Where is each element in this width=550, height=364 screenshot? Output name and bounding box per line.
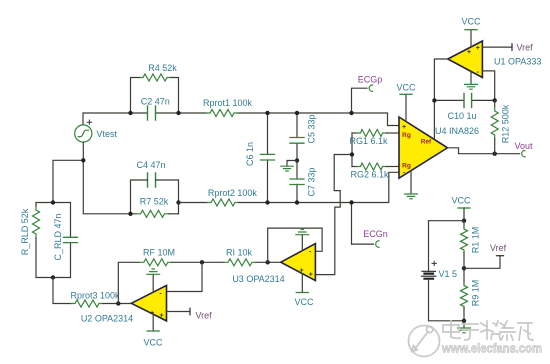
- resistor R12 500k: [494, 100, 496, 107]
- junction: divider bottom: [462, 319, 466, 323]
- svg-text:Vref: Vref: [490, 243, 507, 253]
- svg-text:U2 OPA2314: U2 OPA2314: [81, 314, 133, 324]
- wire: Vref tap terminal: [464, 256, 500, 269]
- junction: top rail at ECGp: [349, 111, 353, 115]
- resistor R9 1M: [463, 268, 465, 284]
- ground above U3 (flipped): [301, 235, 303, 251]
- svg-text:U3 OPA2314: U3 OPA2314: [232, 274, 284, 284]
- junction: C2 block left: [128, 111, 132, 115]
- svg-text:VCC: VCC: [396, 82, 416, 92]
- junction: C7 bottom: [295, 200, 299, 204]
- svg-text:+: +: [476, 45, 480, 52]
- wire: bottom rail from Rprot2 to U4 -IN jog: [239, 172, 399, 202]
- svg-text:V1 5: V1 5: [439, 269, 458, 279]
- svg-text:R9 1M: R9 1M: [471, 280, 481, 307]
- wire: bottom rail from block exit to Rprot2: [179, 202, 208, 204]
- resistor R_RLD: [33, 206, 40, 238]
- svg-text:VCC: VCC: [143, 338, 163, 348]
- ground below U4: [410, 171, 412, 194]
- watermark stamp circle: [409, 326, 440, 357]
- svg-text:Vref: Vref: [196, 310, 213, 320]
- wire: Rprot3 to U2 output tip: [103, 303, 131, 305]
- svg-text:Rg: Rg: [402, 132, 411, 139]
- resistor RG2 6.1k: [352, 166, 357, 168]
- wire: U1 output down to C10 node: [434, 59, 447, 100]
- svg-text:C7 33p: C7 33p: [307, 167, 317, 196]
- svg-text:Ref: Ref: [421, 139, 432, 146]
- capacitor C_RLD: [64, 237, 78, 242]
- resistor Rprot3: [71, 300, 103, 307]
- junction: RG midpoint: [350, 152, 354, 156]
- junction: block left bottom: [128, 212, 132, 216]
- wire: RG1-RG2 left vertical: [351, 133, 353, 167]
- svg-text:C4 47n: C4 47n: [136, 160, 165, 170]
- wire: node to RLD block top: [53, 160, 83, 202]
- wire: U2 +IN to Vref terminal: [167, 311, 191, 313]
- watermark chinese characters: [443, 321, 533, 340]
- junction: divider top: [462, 219, 466, 223]
- wire: ECGp stub: [352, 88, 368, 113]
- wire: RG midpoint tap to U3 +IN: [315, 155, 352, 275]
- svg-text:VCC: VCC: [451, 196, 471, 206]
- wire: RI right to U3 tip: [256, 261, 281, 263]
- source Vtest: [75, 125, 92, 142]
- resistor RG1 6.1k: [352, 132, 357, 134]
- node Vout bubble: [522, 151, 525, 157]
- ground at C5/C7 midpoint: [281, 166, 293, 171]
- wire: U4 output jog to Vout: [448, 148, 520, 154]
- svg-text:RG1 6.1k: RG1 6.1k: [349, 136, 388, 146]
- svg-text:C2 47n: C2 47n: [141, 97, 170, 107]
- resistor R4: [139, 74, 171, 81]
- wire: midpoint ground tap: [287, 161, 297, 166]
- resistor Rprot2: [207, 199, 239, 206]
- ground above U2 (flipped): [152, 274, 154, 292]
- resistor Rprot1: [206, 110, 238, 117]
- svg-text:VCC: VCC: [294, 297, 314, 307]
- junction: R12 bottom / output: [493, 152, 497, 156]
- svg-text:+: +: [309, 271, 313, 278]
- svg-text:R_RLD 52k: R_RLD 52k: [20, 208, 30, 255]
- junction: U3 out node: [266, 260, 270, 264]
- svg-text:RF 10M: RF 10M: [143, 247, 175, 257]
- junction: Vtest bottom node: [81, 158, 85, 162]
- junction: RLD bottom: [51, 275, 55, 279]
- svg-text:www.elecfans.com: www.elecfans.com: [441, 341, 542, 356]
- svg-text:R7 52k: R7 52k: [140, 197, 169, 207]
- svg-text:ECGn: ECGn: [363, 229, 388, 239]
- wire: battery bottom to ground rail: [429, 280, 465, 321]
- svg-text:R12 500k: R12 500k: [501, 104, 511, 143]
- wire: ECGn stub: [352, 203, 374, 245]
- svg-text:Vtest: Vtest: [97, 129, 118, 139]
- op-amp U3 OPA2314: [281, 244, 316, 281]
- svg-text:C6 1n: C6 1n: [245, 142, 255, 166]
- junction: block right at exit: [176, 200, 180, 204]
- VCC pin above U1: [470, 30, 472, 47]
- junction: C5 top: [295, 111, 299, 115]
- svg-text:R1 1M: R1 1M: [471, 227, 481, 254]
- capacitor C10: [434, 99, 494, 101]
- junction: C6 bottom: [265, 200, 269, 204]
- capacitor C2: [148, 106, 156, 120]
- wire: U1 +IN to Vref terminal: [482, 46, 512, 48]
- battery V1: [422, 271, 436, 276]
- op-amp U1 OPA333: [448, 41, 483, 78]
- op-amp U2 OPA2314: [131, 285, 166, 321]
- wire: RLD bottom to Rprot3: [53, 278, 71, 304]
- VCC pin above U4: [405, 94, 407, 121]
- junction: C2 block right: [176, 111, 180, 115]
- wire: Ref pin from C10 node down into U4: [433, 100, 435, 139]
- svg-text:U1 OPA333: U1 OPA333: [494, 56, 541, 66]
- wire: RF right to node: [172, 261, 224, 263]
- junction: U2 output / feedback node: [116, 301, 120, 305]
- capacitor C7: [296, 161, 298, 203]
- junction: C10 right / R12 top: [493, 98, 497, 102]
- svg-text:C5 33p: C5 33p: [307, 114, 317, 143]
- ground below divider: [463, 321, 465, 328]
- svg-text:Vout: Vout: [514, 141, 533, 151]
- svg-text:R4 52k: R4 52k: [148, 63, 177, 73]
- ground below U1: [470, 71, 472, 84]
- svg-text:Rprot3 100k: Rprot3 100k: [70, 291, 120, 301]
- svg-text:Rprot2 100k: Rprot2 100k: [208, 188, 258, 198]
- capacitor C6: [267, 113, 269, 203]
- wire: C4/R7 parallel loop: [131, 180, 179, 214]
- wire: node down to U2 inverting input: [167, 262, 203, 291]
- wire: Vtest bottom lead to node: [82, 142, 84, 160]
- svg-text:C10 1u: C10 1u: [447, 111, 476, 121]
- junction: bottom rail at ECGn: [349, 200, 353, 204]
- node ECGp bubble: [369, 85, 372, 91]
- junction: RF/RI/U2- node: [200, 260, 204, 264]
- wire: top rail from Rprot1 to U4 +IN jog: [238, 113, 399, 126]
- junction: RLD top: [51, 200, 55, 204]
- wire: R7 right lead to block corner: [169, 213, 179, 215]
- wire: RF feedback left leg: [118, 262, 139, 303]
- wire: divider top to battery: [429, 221, 465, 271]
- wire: U3 feedback loop: [268, 228, 322, 262]
- svg-text:U4 INA826: U4 INA826: [435, 126, 479, 136]
- junction: C10 left / Ref node: [432, 98, 436, 102]
- svg-text:VCC: VCC: [461, 17, 481, 27]
- node ECGn bubble: [376, 241, 379, 247]
- capacitor C5: [296, 113, 298, 161]
- VCC pin below U2: [152, 315, 154, 332]
- wire: node down to lower branch: [83, 160, 136, 214]
- op-amp U4 INA826: [399, 117, 448, 178]
- svg-text:+: +: [159, 312, 163, 319]
- wire: RLD block frame: [36, 203, 71, 278]
- svg-text:+: +: [467, 49, 471, 56]
- wire: top rail from C2 right plate to Rprot1: [156, 112, 207, 114]
- resistor RI 10k: [224, 259, 256, 266]
- svg-text:+: +: [299, 267, 303, 274]
- capacitor C4: [148, 173, 156, 187]
- wire: R4/C2 parallel loop: [131, 78, 179, 114]
- junction: C5/C7 midpoint: [295, 158, 299, 162]
- svg-text:+: +: [402, 124, 406, 131]
- svg-text:Rprot1 100k: Rprot1 100k: [203, 98, 253, 108]
- resistor R1 1M: [463, 221, 465, 228]
- svg-text:ECGp: ECGp: [358, 75, 383, 85]
- junction: Vref tap: [462, 266, 466, 270]
- svg-text:RI 10k: RI 10k: [226, 247, 253, 257]
- svg-text:Rg: Rg: [402, 162, 411, 169]
- wire: Vtest top lead up to top rail: [83, 113, 148, 125]
- svg-text:RG2 6.1k: RG2 6.1k: [350, 169, 389, 179]
- resistor RF 10M: [140, 259, 172, 266]
- plus mark of Vtest: [87, 120, 91, 124]
- svg-text:Vref: Vref: [517, 42, 534, 52]
- wire: U1 -IN down to R12 top node: [482, 71, 494, 101]
- VCC pin below U3: [301, 274, 303, 293]
- resistor R7: [137, 210, 169, 217]
- junction: C6 top: [265, 111, 269, 115]
- svg-text:C_RLD 47n: C_RLD 47n: [53, 213, 63, 260]
